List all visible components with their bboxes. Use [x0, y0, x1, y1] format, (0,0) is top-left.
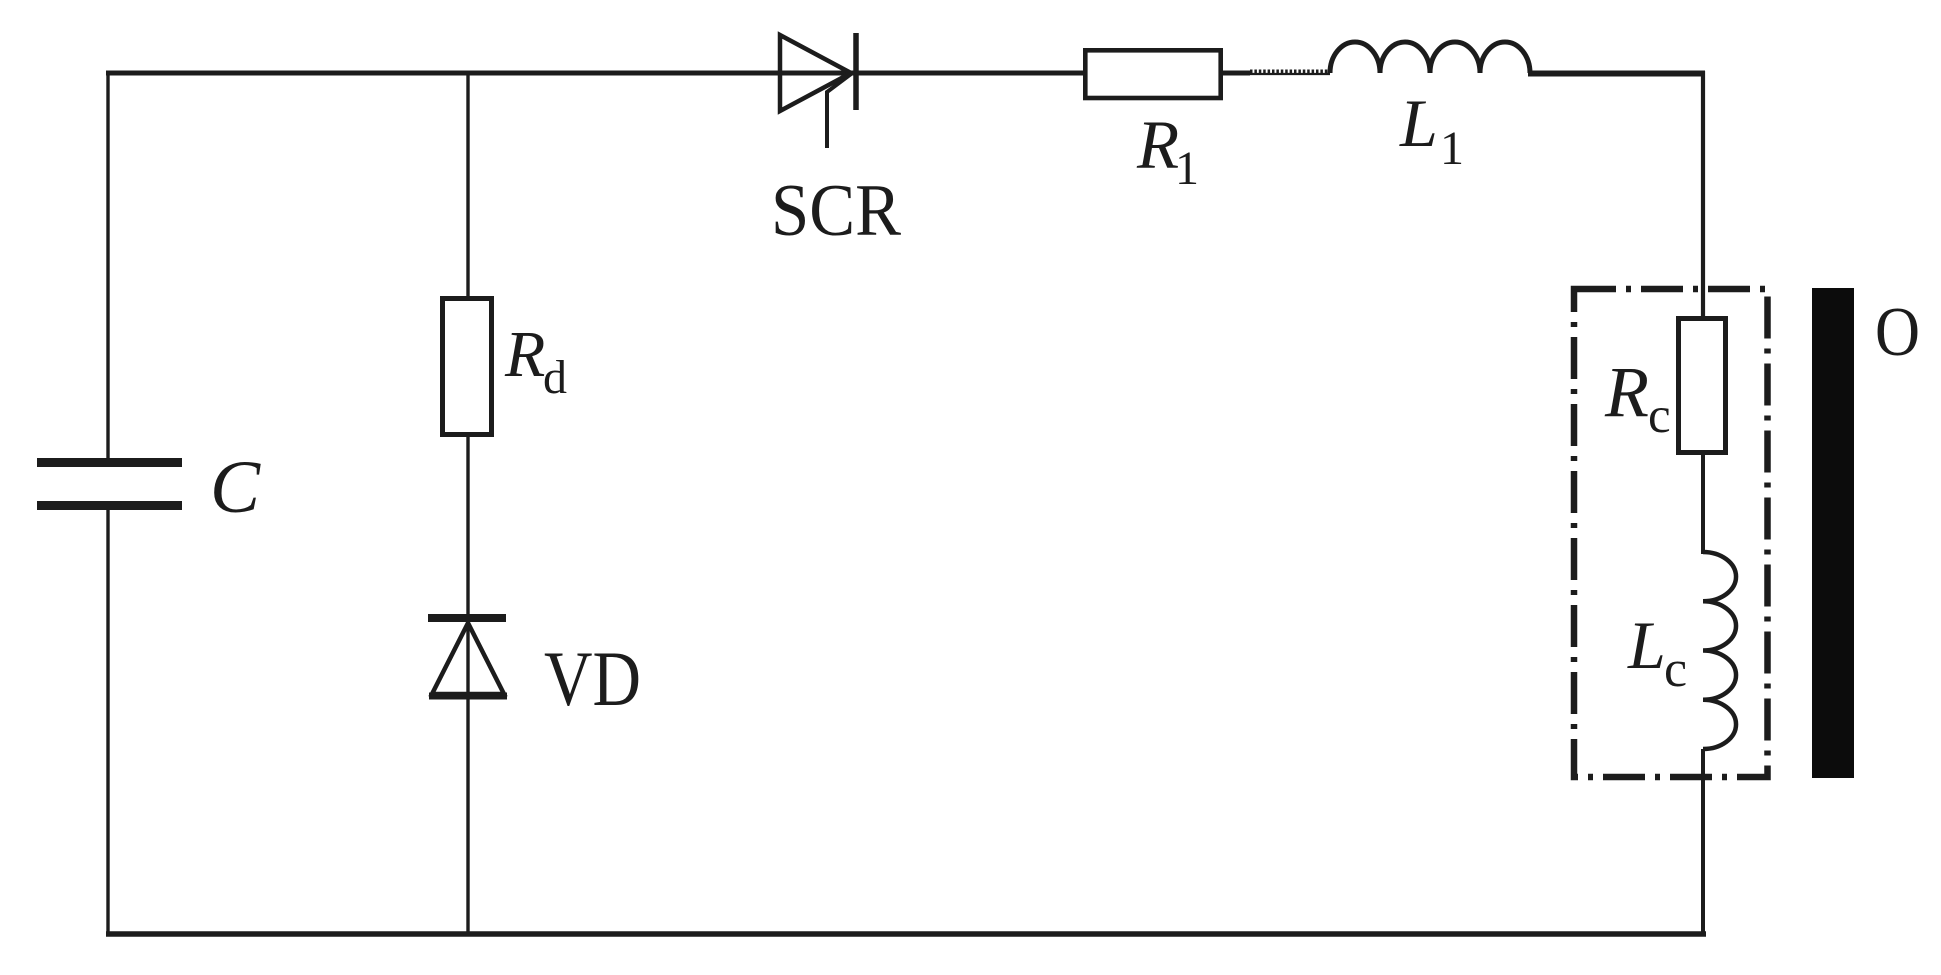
inductor L1 — [1330, 42, 1530, 73]
dashed coil box — [1574, 289, 1768, 777]
wire left vertical lower — [106, 505, 109, 936]
label L1 — [1399, 85, 1464, 175]
resistor Rd — [443, 299, 492, 435]
svg-text:1: 1 — [1440, 122, 1464, 175]
wire between Rc and Lc — [1701, 455, 1705, 554]
wire below Lc — [1701, 749, 1705, 936]
svg-text:1: 1 — [1175, 142, 1199, 195]
svg-text:c: c — [1648, 388, 1671, 444]
svg-text:O: O — [1875, 294, 1920, 371]
inductor Lc — [1703, 552, 1736, 749]
label Rc — [1604, 352, 1671, 444]
wire right vertical upper — [1701, 71, 1705, 320]
svg-text:R: R — [1136, 107, 1179, 183]
svg-text:R: R — [1604, 352, 1649, 432]
svg-text:SCR: SCR — [771, 170, 902, 252]
workpiece bar O — [1812, 288, 1854, 778]
wire left vertical upper — [106, 71, 109, 463]
wire top right horizontal — [1528, 71, 1705, 77]
resistor Rc — [1679, 319, 1726, 453]
svg-text:VD: VD — [544, 635, 641, 722]
wire through VD — [466, 618, 469, 696]
svg-text:C: C — [210, 446, 261, 529]
svg-text:L: L — [1399, 85, 1438, 161]
wire stub right of R1 — [1222, 71, 1250, 76]
wire branch Rd top — [466, 73, 469, 298]
thyristor SCR — [780, 33, 856, 148]
label Rd — [504, 318, 567, 404]
wire below VD — [466, 695, 469, 934]
resistor R1 — [1085, 50, 1220, 98]
wire between Rd and VD — [466, 435, 469, 618]
diode VD — [428, 618, 507, 696]
wire bottom horizontal — [106, 931, 1706, 937]
svg-text:R: R — [504, 318, 545, 391]
svg-text:L: L — [1627, 607, 1666, 683]
capacitor C plates — [37, 463, 182, 506]
label R1 — [1136, 107, 1199, 195]
label Lc — [1627, 607, 1687, 698]
svg-text:d: d — [543, 351, 567, 404]
wire top horizontal — [106, 71, 1085, 76]
wire dotted segment before L1 — [1250, 70, 1330, 75]
svg-text:c: c — [1664, 641, 1687, 698]
